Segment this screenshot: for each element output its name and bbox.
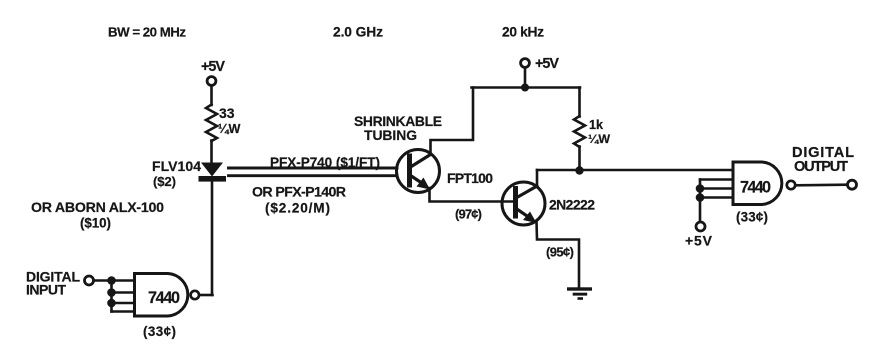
svg-text:¼W: ¼W [588, 132, 610, 146]
svg-text:(97¢): (97¢) [455, 207, 482, 222]
svg-text:+5V: +5V [535, 56, 559, 72]
svg-text:OR ABORN ALX-100: OR ABORN ALX-100 [31, 200, 164, 216]
svg-text:7440: 7440 [148, 289, 180, 307]
svg-text:OR PFX-P140R: OR PFX-P140R [252, 185, 346, 201]
svg-text:1k: 1k [589, 118, 604, 132]
svg-text:+5V: +5V [201, 59, 225, 75]
svg-text:FPT100: FPT100 [447, 170, 493, 186]
svg-text:2N2222: 2N2222 [549, 196, 595, 212]
svg-text:¼W: ¼W [218, 122, 241, 136]
svg-text:(33¢): (33¢) [736, 209, 768, 224]
svg-text:7440: 7440 [740, 178, 771, 196]
svg-text:($10): ($10) [80, 216, 111, 231]
svg-text:(33¢): (33¢) [143, 324, 176, 339]
svg-text:33: 33 [219, 105, 235, 121]
svg-text:2.0 GHz: 2.0 GHz [333, 24, 383, 39]
svg-text:($2): ($2) [153, 174, 176, 189]
svg-text:($2.20/M): ($2.20/M) [265, 200, 330, 215]
svg-text:TUBING: TUBING [364, 127, 417, 143]
svg-text:PFX-P740 ($1/FT): PFX-P740 ($1/FT) [270, 155, 380, 170]
svg-text:BW = 20 MHz: BW = 20 MHz [108, 24, 186, 39]
svg-text:OUTPUT: OUTPUT [794, 159, 848, 175]
svg-text:(95¢): (95¢) [546, 245, 574, 260]
svg-text:FLV104: FLV104 [152, 158, 201, 174]
svg-text:INPUT: INPUT [26, 282, 66, 298]
svg-text:20 kHz: 20 kHz [502, 24, 544, 39]
svg-text:+5V: +5V [685, 233, 713, 249]
